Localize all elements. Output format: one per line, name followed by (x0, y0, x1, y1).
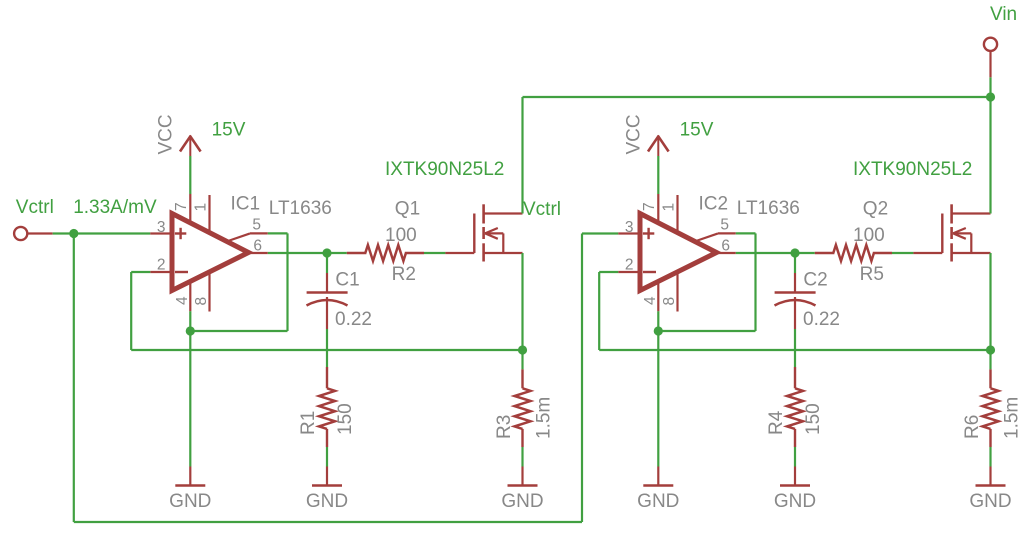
svg-text:Vctrl: Vctrl (523, 199, 561, 220)
node Vin junction (986, 92, 995, 101)
resistor R4 150 (787, 367, 803, 447)
svg-text:15V: 15V (212, 120, 246, 141)
resistor R5 100 (815, 245, 892, 261)
svg-text:GND: GND (774, 491, 816, 512)
svg-text:R2: R2 (392, 264, 416, 285)
terminal Vctrl input pad (14, 227, 27, 240)
svg-text:R3: R3 (494, 415, 515, 439)
wire op-amp IC1 output to R2 (268, 252, 347, 254)
svg-text:GND: GND (969, 491, 1011, 512)
svg-text:GND: GND (637, 491, 679, 512)
svg-text:VCC: VCC (624, 114, 645, 154)
node output junction IC1 (322, 248, 331, 257)
svg-text:1: 1 (661, 203, 678, 212)
svg-text:IXTK90N25L2: IXTK90N25L2 (385, 159, 504, 180)
svg-text:GND: GND (306, 491, 348, 512)
wire op-amp IC2 output to R5 (736, 252, 815, 254)
svg-text:8: 8 (193, 297, 210, 306)
op-amp IC2 pin 3 (+IN) (618, 219, 640, 236)
resistor R6 1.5m (983, 369, 999, 447)
svg-text:1.5m: 1.5m (1002, 397, 1023, 439)
svg-text:3: 3 (625, 219, 634, 236)
wire R2 to gate (424, 252, 445, 254)
svg-text:15V: 15V (680, 120, 714, 141)
svg-text:R5: R5 (860, 264, 884, 285)
node sense junction Q2 (986, 345, 995, 354)
svg-text:LT1636: LT1636 (737, 198, 800, 219)
ground IC1 V- (169, 467, 211, 513)
svg-text:Vctrl: Vctrl (16, 197, 54, 218)
op-amp IC1 pin 3 (+IN) (150, 219, 172, 236)
op-amp IC2 minus sign (643, 271, 656, 273)
wire Vctrl input net (53, 232, 151, 234)
op-amp IC2 pin 8 (661, 273, 678, 312)
svg-text:IXTK90N25L2: IXTK90N25L2 (853, 159, 972, 180)
resistor R1 150 (319, 367, 335, 447)
op-amp IC1 plus sign (175, 228, 186, 239)
node Vctrl input junction (69, 229, 78, 238)
node sense junction Q1 (518, 345, 527, 354)
op-amp IC1 body (172, 214, 249, 291)
svg-text:0.22: 0.22 (335, 309, 372, 330)
svg-text:R6: R6 (962, 415, 983, 439)
op-amp IC2 body (640, 214, 717, 291)
wire op-amp IC2 V- to ground (657, 311, 659, 466)
wire VCC net IC2 (657, 156, 659, 194)
svg-text:150: 150 (803, 403, 824, 435)
op-amp IC1 pin 6 (OUT) (249, 238, 268, 255)
wire op-amp IC1 V- to ground (189, 311, 191, 466)
wire Q1 drain riser (521, 97, 523, 214)
capacitor C1 0.22 (307, 273, 348, 329)
wire R1 to ground pin (326, 447, 328, 467)
terminal Vin pad (984, 38, 997, 51)
capacitor C2 0.22 (775, 273, 816, 329)
op-amp IC1 pin 2 (-IN) (150, 257, 172, 274)
transistor Q1 IXTK90N25L2 (445, 204, 522, 261)
wire V- junction to pin5 riser IC2 (658, 330, 755, 332)
wire pin5 IC2 to V- net (736, 233, 756, 331)
resistor R2 100 (347, 245, 424, 261)
svg-text:Q2: Q2 (863, 198, 888, 219)
ground R1 (306, 467, 348, 513)
wire C1 to R1 (326, 329, 328, 367)
wire output junction to C2 (794, 253, 796, 273)
svg-text:100: 100 (385, 225, 417, 246)
power VCC symbol IC2 (648, 136, 669, 156)
op-amp IC2 pin 6 (OUT) (717, 238, 736, 255)
op-amp IC2 pin 5 (696, 217, 736, 242)
svg-text:C2: C2 (803, 270, 827, 291)
svg-text:5: 5 (720, 217, 729, 234)
svg-text:VCC: VCC (156, 114, 177, 154)
resistor R3 1.5m (515, 369, 531, 447)
power VCC symbol IC1 (180, 136, 201, 156)
svg-text:Q1: Q1 (395, 198, 420, 219)
wire Q2 drain riser (989, 97, 991, 214)
svg-text:1: 1 (193, 203, 210, 212)
svg-text:5: 5 (252, 217, 261, 234)
wire pin5 IC1 to V- net (268, 233, 288, 331)
svg-text:4: 4 (174, 296, 191, 305)
ground R4 (774, 467, 816, 513)
wire Vctrl bottom rail (74, 234, 619, 523)
wire C2 to R4 (794, 329, 796, 367)
wire Vin top rail (523, 96, 991, 98)
wire R6 to ground pin (989, 447, 991, 467)
svg-text:1.5m: 1.5m (534, 397, 555, 439)
svg-text:2: 2 (625, 257, 634, 274)
ground R3 (501, 467, 543, 513)
svg-text:R4: R4 (766, 410, 787, 435)
svg-text:2: 2 (157, 257, 166, 274)
wire Q2 source to sense node (989, 253, 991, 350)
op-amp IC1 pin 4 (V-) (174, 282, 191, 312)
transistor Q2 IXTK90N25L2 (913, 204, 990, 261)
op-amp IC2 pin 7 (V+) (641, 194, 658, 223)
wire R3 to ground pin (521, 447, 523, 467)
svg-text:LT1636: LT1636 (269, 198, 332, 219)
svg-text:6: 6 (253, 238, 262, 255)
op-amp IC2 plus sign (643, 228, 654, 239)
node output junction IC2 (790, 248, 799, 257)
svg-text:4: 4 (642, 296, 659, 305)
svg-text:100: 100 (853, 225, 885, 246)
svg-text:R1: R1 (298, 411, 319, 435)
svg-text:3: 3 (157, 219, 166, 236)
svg-text:GND: GND (169, 491, 211, 512)
node V- junction IC1 (186, 326, 195, 335)
op-amp IC2 pin 1 (661, 195, 678, 233)
terminal Vctrl pin lead (27, 232, 52, 234)
terminal Vin pin lead (989, 51, 991, 77)
op-amp IC1 pin 1 (193, 195, 210, 233)
wire R4 to ground pin (794, 447, 796, 467)
svg-text:IC1: IC1 (231, 194, 261, 215)
wire Vin riser (989, 77, 991, 97)
svg-text:150: 150 (335, 403, 356, 435)
svg-text:0.22: 0.22 (803, 309, 840, 330)
op-amp IC1 pin 8 (193, 273, 210, 312)
svg-text:Vin: Vin (990, 4, 1017, 25)
svg-text:1.33A/mV: 1.33A/mV (73, 197, 157, 218)
wire R5 to gate (892, 252, 913, 254)
svg-text:7: 7 (641, 202, 658, 211)
ground IC2 V- (637, 467, 679, 513)
node V- junction IC2 (654, 326, 663, 335)
op-amp IC2 pin 2 (-IN) (618, 257, 640, 274)
wire sense node to R6 (989, 350, 991, 369)
wire VCC net IC1 (189, 156, 191, 194)
wire Q1 source to sense node (521, 253, 523, 350)
svg-text:GND: GND (501, 491, 543, 512)
op-amp IC2 pin 4 (V-) (642, 282, 659, 312)
wire feedback pin2 IC2 (599, 272, 990, 350)
svg-text:IC2: IC2 (699, 194, 729, 215)
svg-text:6: 6 (721, 238, 730, 255)
wire sense node to R3 (521, 350, 523, 369)
svg-text:7: 7 (173, 202, 190, 211)
op-amp IC1 pin 5 (228, 217, 268, 242)
ground R6 (969, 467, 1011, 513)
op-amp IC1 pin 7 (V+) (173, 194, 190, 223)
op-amp IC1 minus sign (175, 271, 188, 273)
wire V- junction to pin5 riser IC1 (190, 330, 287, 332)
svg-text:8: 8 (661, 297, 678, 306)
wire feedback pin2 IC1 (131, 272, 522, 350)
wire output junction to C1 (326, 253, 328, 273)
svg-text:C1: C1 (335, 270, 359, 291)
